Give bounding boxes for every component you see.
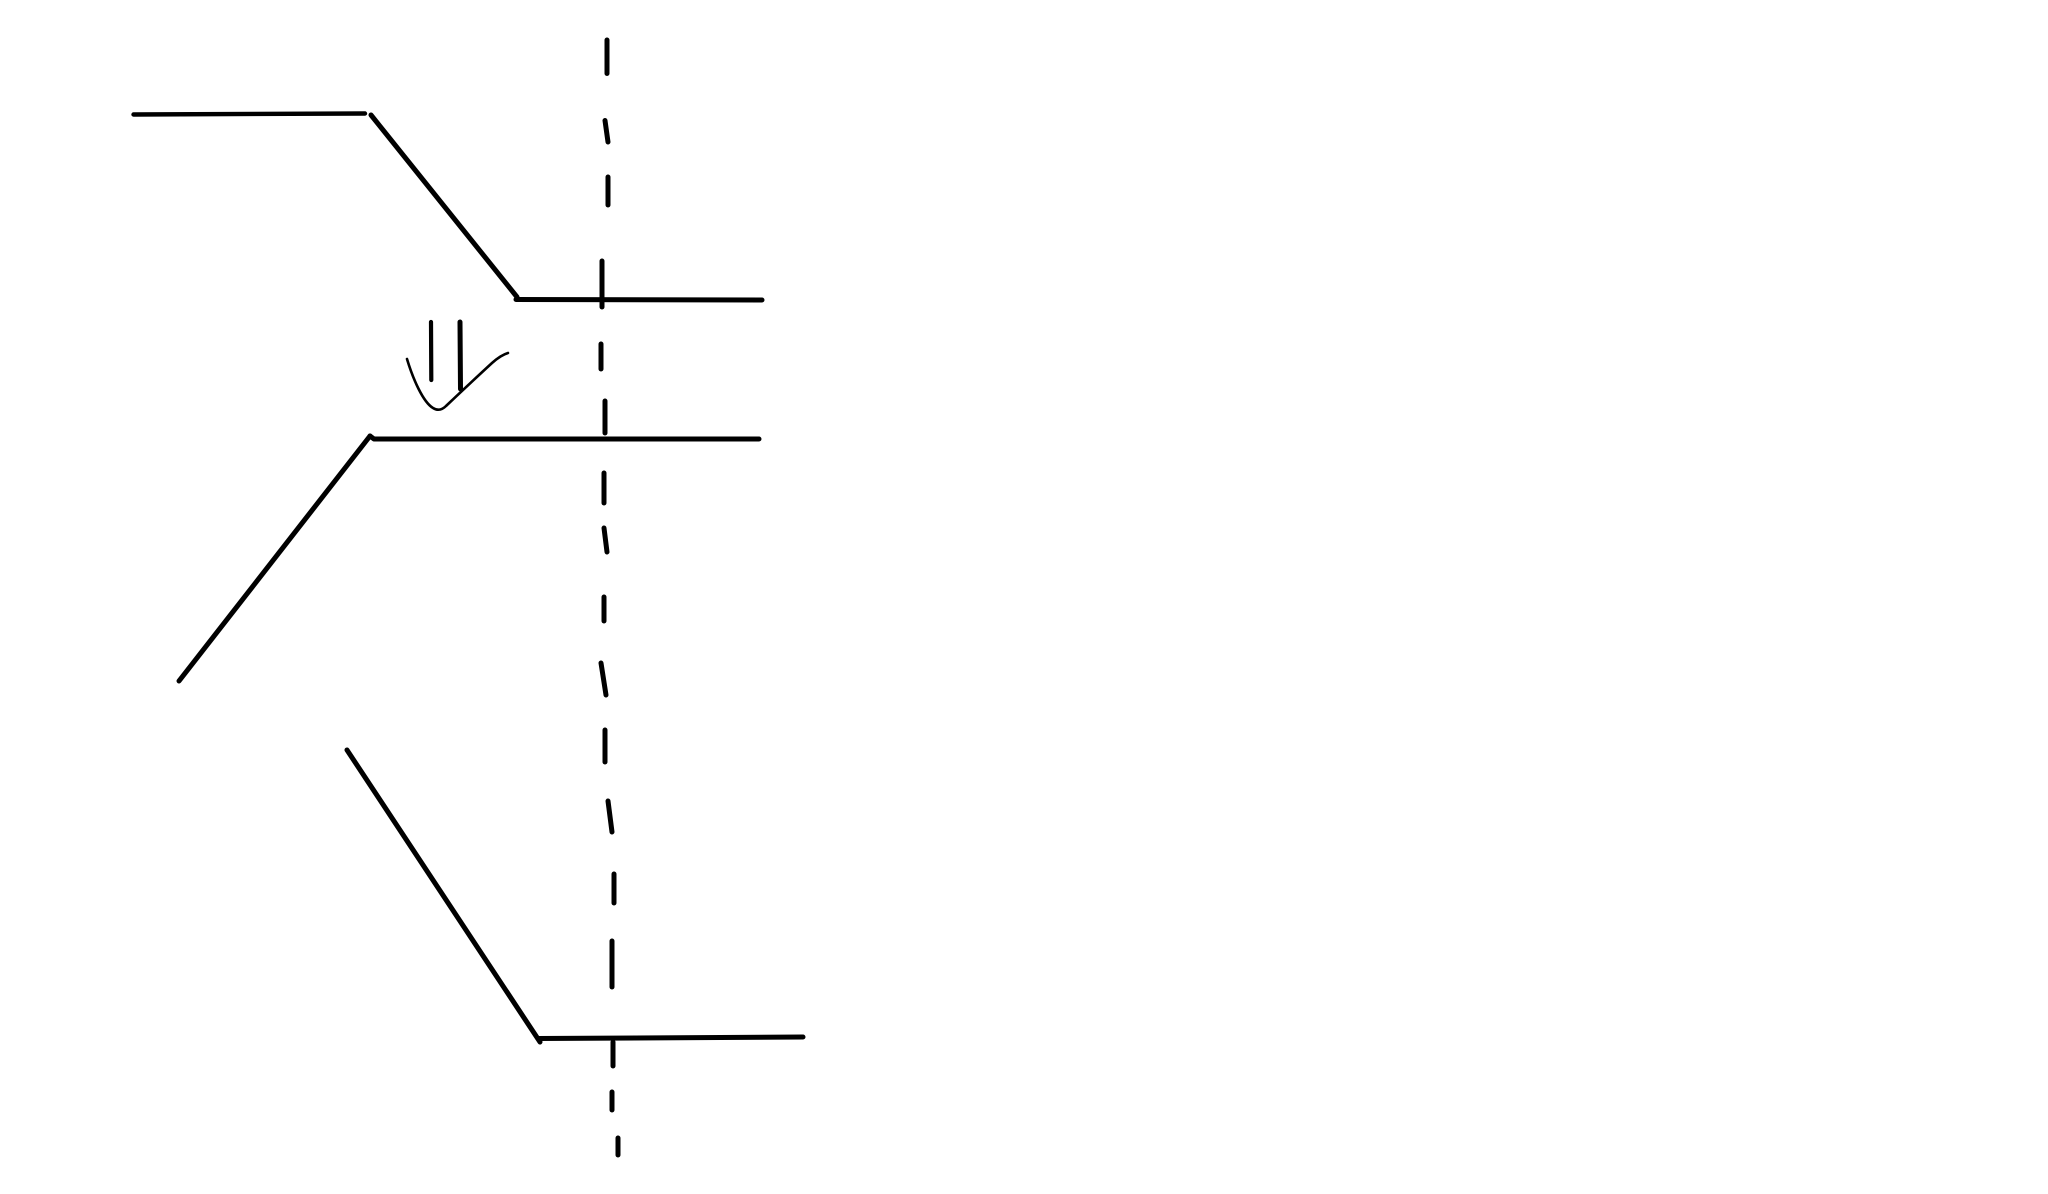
dashed reference line: dash 3: [606, 177, 611, 205]
double down-arrow doodle: left stroke: [429, 322, 433, 380]
wire: step 3 falling edge: [347, 750, 540, 1042]
dashed reference line: dash 12: [608, 801, 612, 832]
dashed reference line: dash 8: [604, 528, 607, 552]
wire: step 1 high-level segment: [134, 114, 366, 115]
dashed reference line: dash 7: [602, 473, 607, 503]
double down-arrow doodle: right stroke: [458, 322, 464, 389]
dashed reference line: dash 15: [611, 1042, 616, 1066]
dashed reference line: dash 2: [605, 121, 608, 143]
wire: step 1 falling edge: [371, 115, 517, 297]
dashed reference line: dash 13: [612, 874, 617, 903]
wire: step 2 falling edge: [179, 436, 370, 681]
dashed reference line: dash 14: [610, 941, 615, 987]
dashed reference line: dash 5: [599, 344, 604, 369]
double down-arrow doodle: curved check head: [407, 353, 508, 410]
dashed reference line: dash 11: [603, 730, 608, 762]
dashed reference line: dash 4: [600, 261, 605, 307]
dashed reference line: dash 17: [616, 1138, 621, 1155]
wire: step 2 high-level segment: [370, 436, 759, 439]
wire: step 1 low-level segment: [516, 297, 762, 303]
dashed reference line: dash 16: [610, 1092, 615, 1110]
wire: step 3 low-level segment: [538, 1037, 803, 1039]
dashed reference line: dash 1: [605, 40, 610, 74]
dashed reference line: dash 10: [601, 663, 606, 695]
dashed reference line: dash 6: [603, 401, 608, 433]
dashed reference line: dash 9: [602, 597, 607, 621]
